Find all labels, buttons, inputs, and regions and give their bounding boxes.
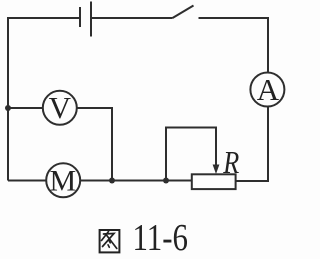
voltmeter V [43,91,77,125]
wire: rheostat slider loop [166,128,216,181]
rheostat slider arrowhead [213,165,220,175]
svg-text:M: M [50,164,77,197]
wire: left rail bottom to motor [8,180,46,182]
svg-text:V: V [49,90,72,125]
wire: switch to top-right corner down to ammeter [199,18,269,73]
battery B1 long plate [90,2,92,37]
junction dot: left rail / voltmeter [5,105,11,111]
motor M [46,163,80,197]
junction dot: bottom rail / slider loop [163,178,169,184]
wire: top-left from left corner to battery [8,18,80,181]
caption glyph 图 [100,230,120,252]
svg-text:R: R [222,144,239,180]
ammeter A [250,73,284,107]
svg-text:A: A [257,72,280,107]
switch S1 lever [173,6,194,19]
svg-text:11-6: 11-6 [133,217,189,259]
wire: left rail to voltmeter [8,107,43,109]
junction dot: bottom rail / voltmeter branch [109,178,115,184]
wire: battery to switch [92,17,173,19]
wire: motor to rheostat left terminal [80,180,192,182]
wire: voltmeter right then down to bottom rail [77,108,112,181]
rheostat R body [192,174,236,189]
battery B1 short plate [79,7,81,27]
wire: ammeter to bottom-right corner to rheostat [236,107,268,182]
